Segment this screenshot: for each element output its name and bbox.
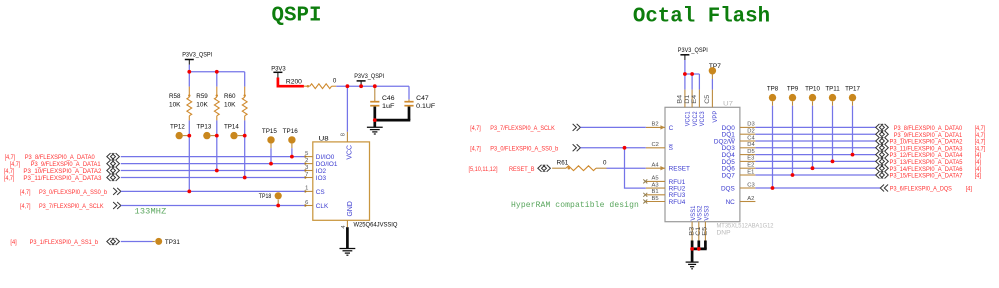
svg-text:A5: A5 <box>652 176 659 182</box>
junction <box>771 186 775 190</box>
svg-text:C5: C5 <box>705 94 711 104</box>
ground (C46/C47) <box>373 120 376 127</box>
wire <box>711 79 713 90</box>
svg-text:A3: A3 <box>652 182 659 188</box>
svg-text:P3V3_QSPI: P3V3_QSPI <box>182 52 212 59</box>
junction <box>215 134 219 138</box>
wire (VSS2, black) <box>697 241 700 249</box>
junction <box>690 72 694 76</box>
svg-text:R60: R60 <box>224 93 236 100</box>
power P3V3_QSPI (octal) <box>680 54 689 56</box>
pin B2 (C) of U7 <box>646 126 665 128</box>
svg-text:B3: B3 <box>689 226 695 236</box>
svg-text:C1: C1 <box>696 226 702 236</box>
svg-text:TP8: TP8 <box>767 86 779 93</box>
svg-text:[4,7]: [4,7] <box>20 203 31 210</box>
svg-text:D1: D1 <box>685 94 691 104</box>
op-amp U7 body (octal flash MT35XL512ABA1G12, DNP) <box>665 107 740 221</box>
svg-text:[4,7]: [4,7] <box>470 125 481 132</box>
wire <box>832 106 834 162</box>
wire <box>755 174 876 176</box>
svg-text:P3V3_QSPI: P3V3_QSPI <box>678 47 708 54</box>
svg-text:P3_0/FLEXSPI0_A_SS0_b: P3_0/FLEXSPI0_A_SS0_b <box>39 189 107 196</box>
svg-text:CLK: CLK <box>316 203 329 210</box>
wire <box>121 241 153 243</box>
junction <box>346 84 350 88</box>
pin D5 (DQ4) of U7 <box>740 154 756 156</box>
svg-text:[4,7]: [4,7] <box>20 189 31 196</box>
wire <box>244 72 246 87</box>
svg-text:S: S <box>669 145 673 152</box>
junction <box>697 247 701 251</box>
wire (SS0 to RFU2) <box>625 148 646 188</box>
svg-text:P3_11/FLEXSPI0_A_DATA3: P3_11/FLEXSPI0_A_DATA3 <box>23 175 102 182</box>
resistor R59 10K <box>216 87 218 98</box>
svg-text:0.1UF: 0.1UF <box>416 103 435 110</box>
svg-text:TP14: TP14 <box>224 124 239 131</box>
wire (C47 to ground, black) <box>408 107 411 121</box>
wire <box>607 167 646 169</box>
wire <box>755 140 876 142</box>
svg-text:3: 3 <box>305 165 308 171</box>
svg-text:E2: E2 <box>747 163 754 169</box>
pin C2 (S) of U7 <box>646 147 665 149</box>
wire <box>684 74 686 90</box>
pin A4 (RESET) of U7 <box>646 167 665 169</box>
wire <box>755 187 880 189</box>
pin C4 (DQ2/W) of U7 <box>740 140 756 142</box>
svg-text:TP15: TP15 <box>262 128 278 135</box>
svg-text:[4,7]: [4,7] <box>4 168 15 175</box>
junction <box>269 162 273 166</box>
pin D2 (DQ1) of U7 <box>740 133 756 135</box>
pin D3 (DQ0) of U7 <box>740 126 756 128</box>
wire <box>772 106 774 188</box>
pin E5 (VSS3) of U7 <box>704 222 706 241</box>
svg-text:E3: E3 <box>747 156 754 162</box>
pin B1 (RFU3) of U7 <box>646 194 665 196</box>
svg-text:P3_0/FLEXSPI0_A_SS0_b: P3_0/FLEXSPI0_A_SS0_b <box>490 145 558 152</box>
pin A2 (NC) of U7 <box>740 201 756 203</box>
svg-text:R61: R61 <box>557 160 569 167</box>
svg-text:D4: D4 <box>747 142 755 148</box>
svg-text:TP31: TP31 <box>165 239 181 246</box>
pin E1 (DQ7) of U7 <box>740 174 756 176</box>
wire <box>812 106 814 168</box>
wire <box>581 126 646 128</box>
wire <box>121 156 305 158</box>
svg-text:TP13: TP13 <box>197 124 212 131</box>
svg-text:10K: 10K <box>196 101 208 108</box>
svg-text:[4,7]: [4,7] <box>4 175 15 182</box>
wire (VCC rail) <box>336 85 409 87</box>
pin 5 (DI/IO0) of U8 <box>305 156 313 158</box>
pin 4 (GND) of U8 <box>346 220 348 227</box>
op-amp U8 body (flash memory W25Q64JVSSIQ) <box>313 142 370 220</box>
svg-text:P3_10/FLEXSPI0_A_DATA2: P3_10/FLEXSPI0_A_DATA2 <box>23 168 102 175</box>
junction <box>683 72 687 76</box>
wire <box>581 147 646 149</box>
pin 1 (CS) of U8 <box>305 190 313 192</box>
power P3V3_QSPI (pull-up rail) <box>185 59 194 61</box>
junction <box>791 173 795 177</box>
wire <box>121 205 305 207</box>
svg-text:B4: B4 <box>678 94 684 104</box>
svg-text:RESET_B: RESET_B <box>509 166 535 173</box>
wire <box>755 133 876 135</box>
pin B5 (RFU4) of U7 <box>646 201 665 203</box>
no-connect cross <box>643 193 647 197</box>
wire <box>188 120 190 191</box>
wire (P3V3, red) <box>278 78 304 87</box>
junction <box>215 169 219 173</box>
junction <box>623 146 627 150</box>
wire <box>755 126 876 128</box>
svg-text:P3_7/FLEXSPI0_A_SCLK: P3_7/FLEXSPI0_A_SCLK <box>490 125 555 132</box>
wire (VSS1, black) <box>691 241 694 249</box>
no-connect cross <box>643 179 647 183</box>
svg-text:P3_7/FLEXSPI0_A_SCLK: P3_7/FLEXSPI0_A_SCLK <box>39 203 104 210</box>
power P3V3 <box>273 71 282 73</box>
pin A3 (RFU2) of U7 <box>646 187 665 189</box>
svg-text:HyperRAM compatible design: HyperRAM compatible design <box>511 201 639 210</box>
svg-text:D2: D2 <box>747 129 754 135</box>
svg-text:QSPI: QSPI <box>272 4 322 27</box>
wire <box>244 120 246 177</box>
svg-text:CS: CS <box>316 189 325 196</box>
wire <box>270 148 272 163</box>
pin C3 (DQS) of U7 <box>740 187 756 189</box>
svg-text:P3V3_QSPI: P3V3_QSPI <box>354 73 384 80</box>
svg-text:RESET: RESET <box>669 166 690 173</box>
junction <box>373 84 377 88</box>
svg-text:6: 6 <box>305 200 308 206</box>
capacitor C46 1uF <box>374 86 376 101</box>
wire <box>685 73 700 75</box>
wire (black) <box>374 119 411 122</box>
wire (U8 GND, black) <box>346 227 349 248</box>
svg-text:GND: GND <box>347 201 354 216</box>
junction <box>831 160 835 164</box>
junction <box>359 84 363 88</box>
svg-text:P3_1/FLEXSPI0_A_SS1_b: P3_1/FLEXSPI0_A_SS1_b <box>30 239 99 246</box>
svg-text:DI/IO0: DI/IO0 <box>316 154 335 161</box>
wire (C46 to ground, black) <box>373 107 376 121</box>
wire <box>216 120 218 170</box>
svg-text:Octal Flash: Octal Flash <box>633 6 770 29</box>
no-connect cross <box>643 200 647 204</box>
svg-text:[4,7]: [4,7] <box>5 154 16 161</box>
svg-text:D3: D3 <box>747 122 754 128</box>
svg-text:P3V3: P3V3 <box>271 65 286 72</box>
junction <box>290 155 294 159</box>
junction <box>811 166 815 170</box>
wire <box>691 74 693 90</box>
svg-text:E4: E4 <box>692 94 698 104</box>
svg-text:[4]: [4] <box>966 186 973 193</box>
wire <box>216 72 218 87</box>
svg-text:TP12: TP12 <box>170 124 185 131</box>
pin 7 (IO3) of U8 <box>305 177 313 179</box>
svg-text:IO2: IO2 <box>316 168 327 175</box>
junction <box>187 70 191 74</box>
svg-text:8: 8 <box>341 133 347 136</box>
ground (U8) <box>340 248 356 250</box>
svg-text:DQ7: DQ7 <box>722 172 736 179</box>
junction <box>243 176 247 180</box>
pin C5 (VPP) of U7 <box>711 90 713 108</box>
svg-text:R59: R59 <box>196 93 208 100</box>
svg-text:TP16: TP16 <box>283 128 299 135</box>
wire <box>755 167 876 169</box>
pin E2 (DQ6) of U7 <box>740 167 756 169</box>
svg-text:R200: R200 <box>286 78 303 85</box>
svg-text:C3: C3 <box>747 182 754 188</box>
resistor R58 10K <box>188 87 190 98</box>
wire <box>684 60 686 74</box>
junction <box>187 134 191 138</box>
pin B4 (VCC1) of U7 <box>684 90 686 108</box>
resistor R60 10K <box>244 87 246 98</box>
svg-text:B5: B5 <box>652 196 659 202</box>
svg-text:E5: E5 <box>703 226 709 236</box>
pin C1 (VSS2) of U7 <box>698 222 700 241</box>
junction <box>187 190 191 194</box>
svg-text:W25Q64JVSSIQ: W25Q64JVSSIQ <box>354 221 398 228</box>
svg-text:B2: B2 <box>652 122 659 128</box>
svg-text:U7: U7 <box>723 101 734 108</box>
svg-text:RFU4: RFU4 <box>669 199 686 206</box>
pin D4 (DQ3) of U7 <box>740 147 756 149</box>
pin 3 (IO2) of U8 <box>305 170 313 172</box>
wire <box>121 177 305 179</box>
svg-text:R58: R58 <box>169 93 181 100</box>
svg-text:1: 1 <box>305 186 308 192</box>
pin D1 (VCC2) of U7 <box>691 90 693 108</box>
svg-text:VCC1: VCC1 <box>685 111 692 126</box>
svg-text:[4]: [4] <box>10 239 17 246</box>
svg-text:P3_6/FLEXSPI0_A_DQS: P3_6/FLEXSPI0_A_DQS <box>890 186 952 193</box>
wire <box>755 160 876 162</box>
svg-text:IO3: IO3 <box>316 175 327 182</box>
wire (black) <box>691 248 707 251</box>
svg-text:[4,7]: [4,7] <box>470 145 481 152</box>
svg-text:2: 2 <box>305 158 308 164</box>
svg-text:1uF: 1uF <box>382 103 395 110</box>
svg-text:VSS3: VSS3 <box>703 205 710 220</box>
svg-text:TP18: TP18 <box>259 193 272 200</box>
svg-text:10K: 10K <box>224 101 236 108</box>
wire <box>188 65 190 72</box>
wire <box>755 147 876 149</box>
pin E4 (VCC3) of U7 <box>698 90 700 108</box>
wire <box>852 106 854 155</box>
junction <box>851 153 855 157</box>
junction <box>373 118 377 122</box>
svg-text:5: 5 <box>305 151 308 157</box>
wire <box>755 154 876 156</box>
svg-text:C4: C4 <box>747 135 755 141</box>
wire <box>121 163 305 165</box>
svg-text:P3_8/FLEXSPI0_A_DATA0: P3_8/FLEXSPI0_A_DATA0 <box>25 154 96 161</box>
junction <box>690 247 694 251</box>
test point TP31 <box>153 241 155 243</box>
pin A5 (RFU1) of U7 <box>646 180 665 182</box>
svg-text:C: C <box>669 125 674 132</box>
svg-text:10K: 10K <box>169 101 181 108</box>
svg-text:DQS: DQS <box>721 185 735 192</box>
svg-text:TP9: TP9 <box>787 86 799 93</box>
pin 2 (DO/IO1) of U8 <box>305 163 313 165</box>
svg-text:0: 0 <box>333 77 337 84</box>
svg-text:VPP: VPP <box>712 111 719 123</box>
svg-text:133MHZ: 133MHZ <box>135 207 167 217</box>
svg-text:VCC: VCC <box>346 145 353 160</box>
wire <box>408 86 410 99</box>
svg-text:C2: C2 <box>652 142 659 148</box>
svg-text:NC: NC <box>726 199 736 206</box>
pin 6 (CLK) of U8 <box>305 205 313 207</box>
svg-text:C46: C46 <box>382 95 395 102</box>
svg-text:A2: A2 <box>747 196 754 202</box>
svg-text:[4]: [4] <box>975 173 982 180</box>
wire <box>121 190 305 192</box>
svg-text:DNP: DNP <box>717 229 731 236</box>
wire (pull-up rail) <box>189 71 244 73</box>
svg-text:TP11: TP11 <box>825 86 840 93</box>
wire <box>698 74 700 90</box>
wire <box>121 170 305 172</box>
svg-text:E1: E1 <box>747 169 754 175</box>
wire <box>188 72 190 87</box>
wire (VSS3, black) <box>704 241 707 249</box>
pin E3 (DQ5) of U7 <box>740 160 756 162</box>
svg-text:P3_15/FLEXSPI0_A_DATA7: P3_15/FLEXSPI0_A_DATA7 <box>890 173 964 180</box>
junction <box>276 204 280 208</box>
svg-text:TP17: TP17 <box>845 86 860 93</box>
svg-text:[5,10,11,12]: [5,10,11,12] <box>469 166 498 173</box>
svg-text:B1: B1 <box>652 189 659 195</box>
svg-text:D5: D5 <box>747 149 754 155</box>
svg-text:A4: A4 <box>652 163 660 169</box>
wire <box>792 106 794 175</box>
svg-text:TP10: TP10 <box>805 86 820 93</box>
svg-text:U8: U8 <box>319 135 330 142</box>
capacitor C47 0.1UF <box>408 99 410 101</box>
pin B3 (VSS1) of U7 <box>691 222 693 241</box>
junction <box>243 134 247 138</box>
power P3V3_QSPI (at rail) <box>357 80 366 82</box>
svg-text:C47: C47 <box>416 95 429 102</box>
pin 8 (VCC) of U8 <box>346 132 348 142</box>
svg-text:VCC3: VCC3 <box>699 111 706 126</box>
svg-text:VCC2: VCC2 <box>692 111 699 126</box>
svg-text:7: 7 <box>305 172 308 178</box>
svg-text:0: 0 <box>603 160 607 167</box>
junction <box>215 70 219 74</box>
wire (to U8 VCC) <box>346 86 348 132</box>
wire <box>291 148 293 156</box>
ground (U7 VSS) <box>691 249 694 262</box>
